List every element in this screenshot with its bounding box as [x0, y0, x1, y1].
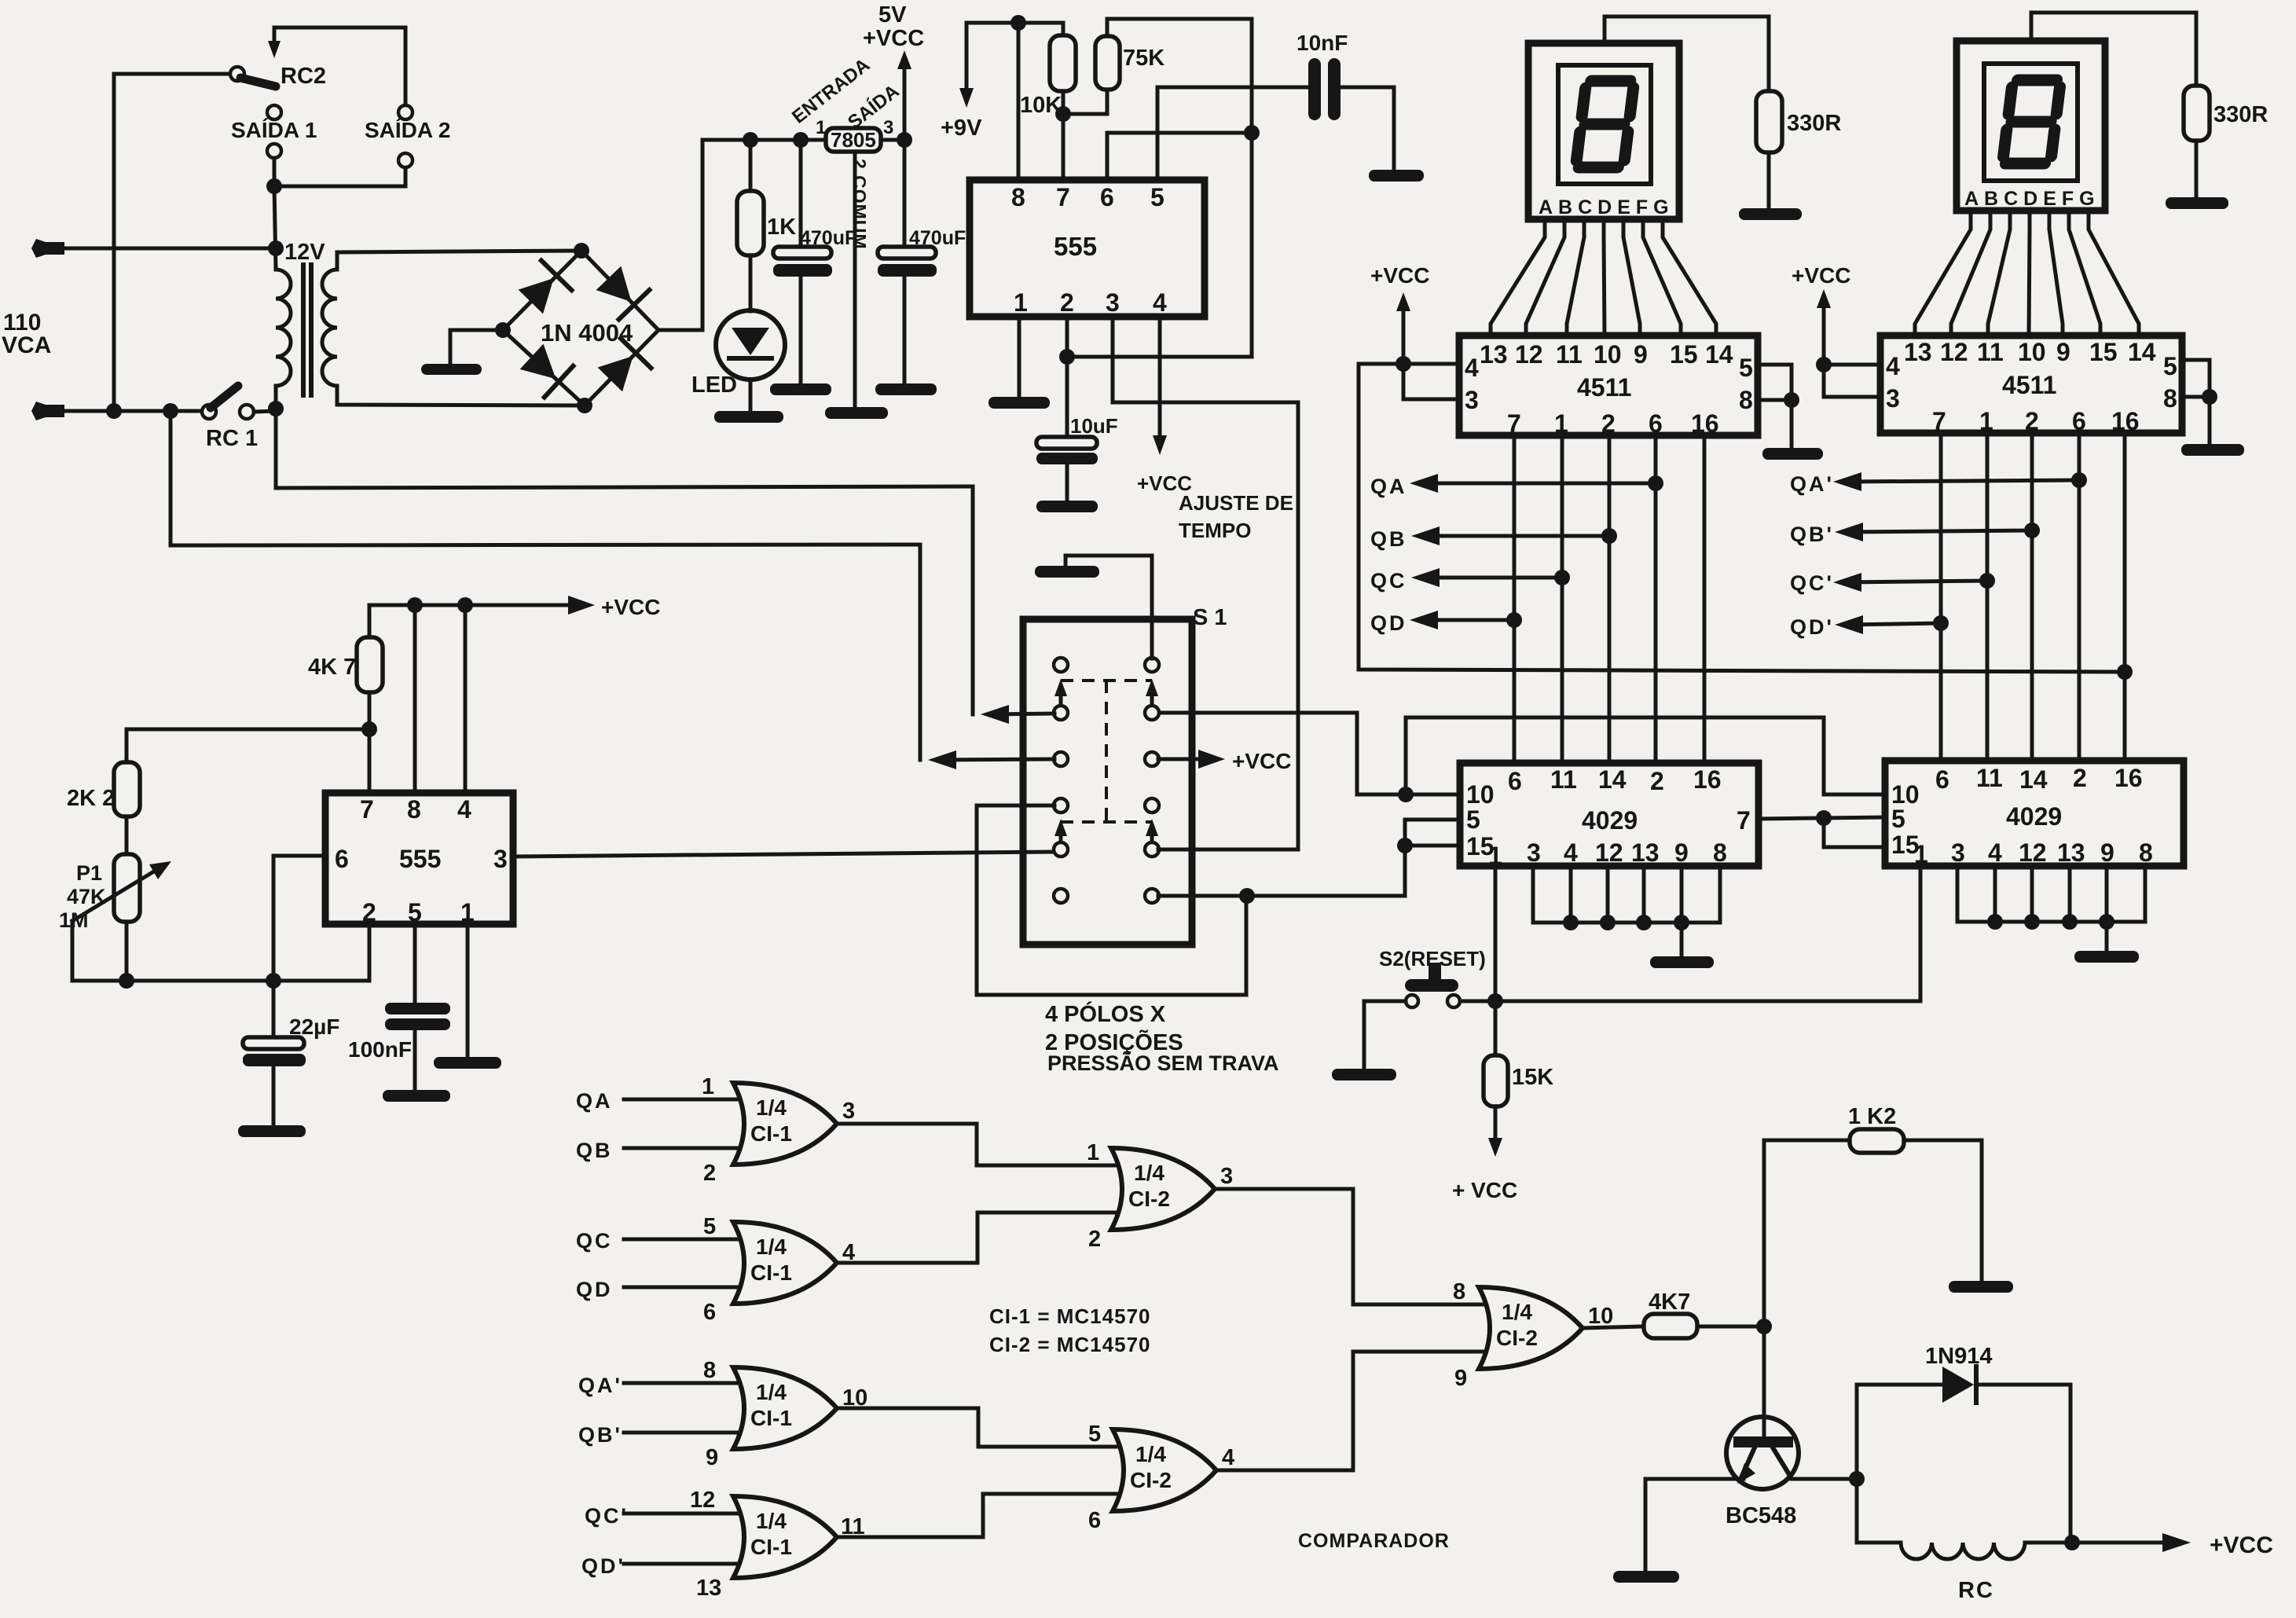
- svg-text:6: 6: [703, 1300, 716, 1325]
- wire rail A (bottom power rail): [276, 409, 973, 488]
- wire G3 out to G6: [837, 1408, 1121, 1447]
- svg-text:8: 8: [1713, 838, 1727, 867]
- wires DS1 segment lines: [1491, 219, 1716, 336]
- resistor 330R DS1: [1756, 91, 1782, 208]
- arrow +9V: [959, 23, 974, 108]
- svg-text:9: 9: [1674, 838, 1689, 867]
- svg-text:3: 3: [493, 845, 508, 873]
- IC 4511 decoder U2: [1459, 336, 1758, 438]
- wire pin3 555a to S1: [1113, 317, 1298, 849]
- svg-text:5: 5: [2163, 352, 2177, 380]
- svg-text:3: 3: [1527, 838, 1541, 867]
- ground U5: [2074, 951, 2139, 963]
- label P1 47K 1M: [59, 861, 106, 932]
- svg-text:+VCC: +VCC: [1232, 749, 1291, 773]
- svg-text:1: 1: [1087, 1140, 1099, 1165]
- svg-text:RC 1: RC 1: [206, 426, 258, 451]
- svg-text:14: 14: [1705, 340, 1733, 369]
- svg-text:LED: LED: [691, 372, 737, 398]
- wire U3 pin5 pin8: [2182, 360, 2210, 444]
- wire 555b pin1: [466, 924, 470, 1057]
- svg-text:CI-1 = MC14570: CI-1 = MC14570: [989, 1304, 1150, 1328]
- wire U2 pin4: [1359, 362, 1459, 366]
- svg-text:RC2: RC2: [281, 64, 326, 89]
- or-gate G2 1/4 CI-1: [624, 1222, 837, 1304]
- wire primary bottom lead: [274, 386, 278, 411]
- wire 110VCA top line: [31, 239, 276, 258]
- transformer T1 primary: [276, 270, 291, 386]
- capacitor 470uF output: [878, 140, 937, 383]
- svg-text:6: 6: [335, 845, 349, 873]
- wire bottom rail 555b: [72, 924, 369, 981]
- svg-text:330R: 330R: [2213, 102, 2268, 127]
- svg-text:3: 3: [842, 1099, 855, 1124]
- node bridge top vertex: [574, 243, 589, 259]
- wire U4 pin1 to reset: [1494, 866, 1498, 1001]
- wire rail B (RC1 rail): [171, 411, 920, 545]
- arrow +VCC 5V: [897, 50, 911, 140]
- svg-text:P1: P1: [76, 861, 102, 885]
- svg-text:4511: 4511: [1577, 373, 1631, 402]
- svg-text:11: 11: [1550, 765, 1577, 794]
- resistor 2K2: [114, 762, 140, 854]
- node U2 pin8: [1784, 392, 1799, 408]
- wire U3 pin3: [1824, 365, 1880, 397]
- svg-text:CI-2 = MC14570: CI-2 = MC14570: [989, 1333, 1150, 1356]
- diode D1 bridge top-left: [515, 261, 571, 317]
- node 12V: [268, 240, 284, 256]
- switch S1 box: [1023, 619, 1192, 945]
- svg-text:13: 13: [1904, 338, 1932, 366]
- svg-text:10: 10: [1588, 1304, 1613, 1329]
- svg-text:4K 7: 4K 7: [308, 655, 356, 680]
- wire collector to relay: [1792, 1477, 1857, 1481]
- wire 555b pin8: [413, 605, 417, 793]
- svg-text:75K: 75K: [1123, 46, 1165, 71]
- svg-text:555: 555: [399, 845, 441, 873]
- svg-text:14: 14: [2128, 338, 2156, 366]
- svg-text:14: 14: [2019, 765, 2048, 794]
- svg-text:1: 1: [1014, 288, 1028, 317]
- resistor 10K: [1050, 35, 1076, 180]
- svg-text:4: 4: [1222, 1445, 1234, 1470]
- wire G4 out to G6: [837, 1494, 1121, 1537]
- svg-text:8: 8: [703, 1358, 716, 1383]
- svg-text:12: 12: [2019, 838, 2047, 867]
- svg-text:S2(RESET): S2(RESET): [1379, 947, 1486, 970]
- wire saida2 branch: [274, 167, 405, 186]
- node pin16 VCC frame: [2117, 664, 2133, 680]
- svg-text:BC548: BC548: [1726, 1503, 1796, 1528]
- svg-text:7805: 7805: [831, 128, 876, 152]
- arrow +VCC U3: [1817, 289, 1831, 365]
- wire bridge left to ground: [450, 330, 503, 364]
- svg-text:8: 8: [2163, 384, 2177, 413]
- svg-text:7: 7: [1737, 806, 1751, 835]
- svg-text:TEMPO: TEMPO: [1179, 519, 1251, 542]
- svg-text:2: 2: [703, 1161, 716, 1186]
- wire DS2 anode to 330R: [2031, 13, 2196, 86]
- svg-text:ABCDEFG: ABCDEFG: [1539, 196, 1674, 218]
- wire rail B to row3 arrow: [920, 545, 1054, 769]
- wire U2 pin6 down: [1654, 435, 1658, 763]
- wire row5 right to 555a: [1158, 848, 1298, 852]
- svg-text:CI-1: CI-1: [750, 1260, 792, 1285]
- switch S2 RESET: [1405, 963, 1460, 1007]
- ground 10nF: [1369, 170, 1424, 182]
- wire 555b pin3 to S1: [513, 852, 1054, 857]
- node 555b pin4: [457, 597, 473, 613]
- svg-text:+VCC: +VCC: [863, 26, 924, 51]
- wires U5 ground bus: [1957, 866, 2145, 951]
- wire saida1 to bus: [273, 158, 277, 186]
- node +VCC U3: [1816, 357, 1832, 372]
- display DS2 7-segment: [1957, 41, 2105, 211]
- svg-text:5: 5: [1739, 354, 1753, 382]
- ground S2: [1332, 1069, 1396, 1081]
- wire QD' arrow: [1835, 615, 1949, 634]
- node 555b pin8: [407, 597, 423, 613]
- node RC1 junction: [268, 401, 284, 416]
- wire 7805 out: [881, 138, 904, 142]
- svg-text:CI-2: CI-2: [1130, 1468, 1172, 1492]
- resistor 1K: [737, 140, 764, 311]
- wire U2 pin5 pin8: [1758, 365, 1792, 448]
- svg-text:CI-2: CI-2: [1128, 1187, 1170, 1211]
- S1 gang dashed links: [1061, 681, 1152, 822]
- ground bridge: [421, 364, 482, 375]
- wire relay left leg: [1855, 1385, 1859, 1543]
- ground 22uF: [238, 1125, 306, 1137]
- wire bus down to 12V: [274, 186, 276, 270]
- svg-text:1/4: 1/4: [1134, 1161, 1165, 1185]
- svg-text:15K: 15K: [1512, 1065, 1553, 1090]
- wire +VCC frame: [1359, 364, 2125, 672]
- svg-text:+VCC: +VCC: [1370, 263, 1429, 288]
- wire relay right leg: [2069, 1385, 2073, 1543]
- ground 1K2: [1949, 1281, 2013, 1293]
- svg-text:4029: 4029: [1582, 806, 1638, 835]
- wire secondary top lead: [337, 251, 581, 270]
- svg-text:11: 11: [1556, 340, 1583, 369]
- svg-text:QC': QC': [1790, 571, 1834, 595]
- IC 555 timer U6: [325, 793, 513, 926]
- wire QD arrow: [1410, 611, 1522, 629]
- S1 pole arrows: [1054, 679, 1158, 842]
- svg-text:5V: 5V: [878, 2, 907, 28]
- potentiometer P1: [72, 854, 171, 981]
- ground U3: [2181, 444, 2244, 456]
- svg-text:8: 8: [407, 795, 421, 824]
- svg-text:1/4: 1/4: [756, 1235, 787, 1259]
- svg-text:8: 8: [2139, 838, 2153, 867]
- wire U3 pin16 down: [2123, 433, 2127, 761]
- wire G5 out to G7: [1215, 1189, 1487, 1304]
- node U4 pin15: [1397, 838, 1413, 853]
- svg-text:7: 7: [360, 795, 374, 824]
- wire 75K top to pin6 riser: [1067, 19, 1252, 357]
- svg-text:13: 13: [1480, 340, 1508, 369]
- svg-text:6: 6: [1100, 183, 1114, 211]
- svg-text:+ VCC: + VCC: [1452, 1178, 1517, 1202]
- svg-text:4 PÓLOS X: 4 PÓLOS X: [1045, 1000, 1166, 1027]
- wire rail A to row2 arrow: [973, 486, 1054, 724]
- wire 555b pin4: [464, 605, 468, 793]
- or-gate G7 1/4 CI-2: [1479, 1287, 1583, 1369]
- svg-text:QD: QD: [1370, 611, 1407, 635]
- svg-text:13: 13: [696, 1576, 721, 1601]
- node pin2 tee: [1059, 349, 1075, 365]
- wire U3 pin6 down: [2078, 433, 2081, 761]
- wires U4 ground bus: [1533, 866, 1720, 956]
- wire U2 pin16 down: [1703, 435, 1707, 763]
- wire row3 right +VCC arrow: [1158, 750, 1225, 769]
- wire pin6 555a: [1107, 133, 1252, 180]
- wire row6 right: [1158, 894, 1405, 898]
- svg-text:8: 8: [1453, 1279, 1465, 1304]
- svg-text:3: 3: [1106, 288, 1120, 317]
- svg-text:6: 6: [1935, 765, 1949, 794]
- svg-text:AJUSTE DE: AJUSTE DE: [1179, 491, 1293, 515]
- svg-text:4K7: 4K7: [1649, 1290, 1690, 1315]
- transformer core: [303, 265, 311, 395]
- or-gate G3 1/4 CI-1: [624, 1367, 837, 1449]
- node +VCC U2: [1396, 356, 1411, 372]
- svg-text:5: 5: [1088, 1422, 1101, 1447]
- svg-text:12: 12: [1515, 340, 1543, 369]
- resistor 330R DS2: [2184, 86, 2210, 197]
- wire G6 out to G7: [1216, 1352, 1487, 1470]
- arrow pin4 +VCC: [1153, 317, 1167, 455]
- svg-text:13: 13: [1631, 838, 1660, 867]
- label 5V +VCC: [863, 2, 924, 51]
- svg-text:2 COMUM: 2 COMUM: [849, 159, 870, 250]
- svg-text:VCA: VCA: [2, 332, 51, 358]
- svg-text:555: 555: [1054, 232, 1097, 261]
- node 470uF1 top: [793, 132, 809, 148]
- diode 1N914: [1857, 1367, 2070, 1403]
- node row6 tap: [1239, 888, 1255, 904]
- capacitor 10uF: [1036, 317, 1098, 501]
- node relay out: [2064, 1535, 2080, 1550]
- svg-text:8: 8: [1739, 386, 1753, 414]
- regulator 7805: [826, 128, 881, 152]
- arrow +VCC relay: [2162, 1533, 2191, 1552]
- svg-text:13: 13: [2057, 838, 2085, 867]
- svg-text:COMPARADOR: COMPARADOR: [1298, 1530, 1450, 1552]
- wire QC arrow: [1411, 568, 1570, 587]
- contact SAIDA2 upper: [398, 105, 413, 119]
- svg-text:1: 1: [816, 117, 826, 138]
- wire U2 pin2 down: [1608, 435, 1612, 763]
- wire row6 to U4: [1158, 894, 1405, 898]
- svg-text:SAÍDA 1: SAÍDA 1: [231, 118, 317, 142]
- svg-text:3: 3: [1220, 1164, 1233, 1189]
- wire QB arrow: [1411, 526, 1617, 545]
- ground U2: [1762, 448, 1823, 460]
- node saida junction: [266, 178, 282, 194]
- svg-text:+VCC: +VCC: [1792, 263, 1850, 288]
- svg-text:330R: 330R: [1787, 111, 1841, 136]
- svg-text:RC: RC: [1958, 1578, 1994, 1603]
- resistor 4K7 out: [1583, 1314, 1764, 1338]
- IC 4029 counter U4: [1460, 763, 1759, 870]
- or-gate G1 1/4 CI-1: [624, 1083, 837, 1165]
- capacitor 100nF: [385, 924, 450, 1090]
- svg-text:16: 16: [1693, 765, 1722, 794]
- svg-text:12: 12: [1595, 838, 1623, 867]
- svg-text:10nF: 10nF: [1297, 31, 1348, 55]
- svg-text:4: 4: [1153, 288, 1167, 317]
- wire QA' arrow: [1833, 472, 2087, 491]
- svg-text:PRESSÃO SEM TRAVA: PRESSÃO SEM TRAVA: [1047, 1051, 1279, 1075]
- svg-text:ABCDEFG: ABCDEFG: [1964, 188, 2100, 210]
- resistor 75K: [1095, 19, 1120, 90]
- node dot left rail: [106, 403, 122, 419]
- wire emitter to ground: [1645, 1479, 1744, 1571]
- diode D3 bridge bottom-left: [517, 341, 573, 398]
- label 110 VCA: [2, 310, 51, 358]
- wire row4 left loop: [977, 805, 1246, 995]
- ground 100nF: [383, 1090, 450, 1102]
- svg-text:9: 9: [2056, 338, 2070, 366]
- svg-text:1: 1: [702, 1074, 714, 1099]
- wire VCC rail 555a: [966, 23, 1063, 35]
- svg-text:5: 5: [703, 1214, 716, 1239]
- svg-text:CI-1: CI-1: [750, 1121, 792, 1146]
- wires DS2 segment lines: [1915, 211, 2139, 336]
- svg-text:4029: 4029: [2006, 802, 2062, 831]
- svg-text:QC': QC': [585, 1504, 629, 1528]
- svg-text:47K: 47K: [67, 885, 106, 908]
- transistor BC548: [1726, 1326, 1799, 1489]
- wire G2 out to G5: [837, 1213, 1120, 1263]
- ground 330R DS2: [2166, 197, 2228, 209]
- wire secondary bottom lead: [337, 386, 585, 405]
- svg-text:470uF: 470uF: [800, 227, 856, 249]
- svg-text:4: 4: [1886, 352, 1900, 380]
- svg-text:QA': QA': [578, 1374, 622, 1397]
- LED D1: [716, 310, 785, 411]
- svg-text:4: 4: [1465, 354, 1479, 382]
- contact SAIDA2 lower: [398, 153, 413, 167]
- svg-text:11: 11: [1976, 764, 2003, 792]
- wire pin5 555a: [1157, 87, 1311, 180]
- svg-text:10: 10: [1594, 340, 1622, 369]
- wire S1 row1 right to ground: [1065, 556, 1152, 659]
- or-gate G5 1/4 CI-2: [1111, 1148, 1215, 1230]
- svg-text:3: 3: [1465, 386, 1479, 414]
- wire clock chain to U5: [1406, 717, 1885, 794]
- svg-text:2: 2: [1060, 288, 1074, 317]
- nodes U5 bus: [1987, 914, 2114, 930]
- svg-text:2: 2: [2073, 764, 2087, 792]
- wire QA arrow: [1410, 474, 1663, 493]
- or-gate G4 1/4 CI-1: [624, 1496, 837, 1578]
- svg-text:6: 6: [1088, 1508, 1101, 1533]
- svg-text:2: 2: [1088, 1227, 1101, 1252]
- node pin8 rail: [1010, 15, 1026, 31]
- node base junction: [1756, 1319, 1772, 1334]
- svg-text:12: 12: [1940, 338, 1968, 366]
- svg-text:12V: 12V: [284, 240, 325, 265]
- ground 470uF input: [770, 383, 831, 395]
- svg-text:470uF: 470uF: [909, 227, 966, 249]
- ground 10uF: [1036, 501, 1098, 512]
- wire U4 pin5 pin15: [1405, 820, 1460, 896]
- svg-text:100nF: 100nF: [348, 1037, 412, 1062]
- svg-text:10uF: 10uF: [1070, 414, 1118, 438]
- svg-text:4: 4: [457, 795, 471, 824]
- svg-text:15: 15: [1670, 340, 1698, 369]
- IC 555 timer U1: [970, 180, 1205, 317]
- wire U2 pin3: [1403, 364, 1459, 399]
- ground LED: [714, 411, 783, 423]
- svg-text:14: 14: [1598, 765, 1627, 794]
- svg-text:QC: QC: [1370, 569, 1407, 593]
- or-gate G6 1/4 CI-2: [1113, 1429, 1216, 1511]
- wire pin8 555a: [1017, 23, 1021, 180]
- svg-text:1/4: 1/4: [756, 1380, 787, 1404]
- diode bridge frame: [503, 251, 658, 405]
- resistor 4K7 b: [357, 637, 383, 793]
- svg-text:5: 5: [1466, 805, 1480, 834]
- wire U4 pin7 to U5 pin5: [1759, 817, 1885, 819]
- resistor 1K2: [1764, 1129, 1982, 1326]
- svg-text:9: 9: [706, 1445, 718, 1470]
- svg-text:QD': QD': [1790, 615, 1834, 639]
- ground 555b pin1: [434, 1057, 501, 1069]
- wire pin1 555a to ground: [1018, 317, 1021, 397]
- svg-text:1/4: 1/4: [756, 1095, 787, 1120]
- ground emitter: [1613, 1571, 1679, 1583]
- node pin6 tee: [1244, 125, 1260, 141]
- svg-text:15: 15: [2089, 338, 2118, 366]
- svg-text:3: 3: [1951, 838, 1965, 867]
- svg-text:9: 9: [2100, 838, 2114, 867]
- svg-text:9: 9: [1454, 1366, 1467, 1391]
- node bridge bottom vertex: [577, 398, 592, 413]
- svg-text:4: 4: [1564, 838, 1578, 867]
- svg-text:QA: QA: [576, 1089, 613, 1113]
- resistor 15K: [1484, 1001, 1508, 1157]
- wire U4 pin10 from S1: [1158, 713, 1460, 794]
- svg-text:4511: 4511: [2002, 371, 2056, 399]
- svg-text:9: 9: [1634, 340, 1648, 369]
- svg-text:+VCC: +VCC: [601, 595, 660, 619]
- svg-text:SAÍDA 2: SAÍDA 2: [365, 118, 450, 142]
- svg-text:10: 10: [1466, 780, 1495, 809]
- svg-text:5: 5: [1891, 805, 1905, 833]
- wire reset line: [1460, 1000, 1920, 1003]
- svg-text:1K: 1K: [767, 215, 796, 240]
- svg-text:1 K2: 1 K2: [1848, 1104, 1896, 1129]
- wire pin6 555b: [273, 856, 325, 981]
- svg-text:11: 11: [1977, 338, 2004, 366]
- nodes U4 bus: [1563, 915, 1689, 930]
- svg-text:CI-2: CI-2: [1496, 1326, 1538, 1350]
- display DS1 7-segment: [1528, 43, 1679, 219]
- svg-text:1/4: 1/4: [756, 1509, 787, 1533]
- ground 555a pin1: [988, 397, 1050, 409]
- wire DS1 anode to 330R: [1605, 17, 1769, 91]
- svg-text:CI-1: CI-1: [750, 1406, 792, 1430]
- svg-text:2: 2: [1650, 767, 1664, 795]
- svg-text:QB': QB': [1790, 523, 1834, 546]
- node bridge left vertex: [495, 322, 511, 338]
- capacitor 10nF: [1308, 58, 1394, 170]
- svg-text:3: 3: [883, 117, 893, 138]
